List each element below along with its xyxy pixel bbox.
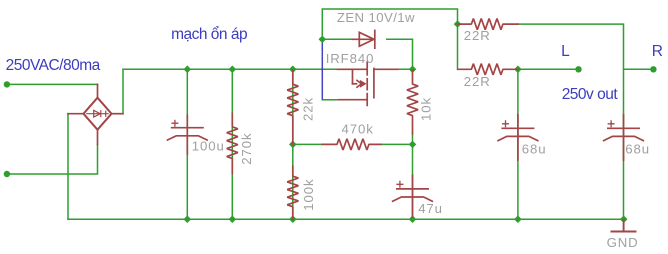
svg-text:250VAC/80ma: 250VAC/80ma [6,57,101,74]
svg-text:100k: 100k [301,178,316,210]
svg-text:68u: 68u [625,141,650,156]
svg-text:250v out: 250v out [562,86,619,103]
svg-text:270k: 270k [239,132,254,164]
svg-text:470k: 470k [342,122,374,137]
svg-text:47u: 47u [418,201,443,216]
svg-text:IRF840: IRF840 [326,51,375,66]
svg-text:100u: 100u [192,138,225,153]
svg-text:GND: GND [607,235,639,250]
svg-text:mạch ổn áp: mạch ổn áp [171,26,247,43]
svg-text:R: R [652,43,663,60]
svg-text:10k: 10k [419,97,434,121]
svg-text:68u: 68u [522,141,547,156]
svg-text:22R: 22R [464,74,491,89]
svg-text:ZEN 10V/1w: ZEN 10V/1w [337,10,415,25]
svg-text:22k: 22k [301,97,316,121]
svg-text:22R: 22R [464,28,491,43]
svg-text:L: L [561,43,570,60]
